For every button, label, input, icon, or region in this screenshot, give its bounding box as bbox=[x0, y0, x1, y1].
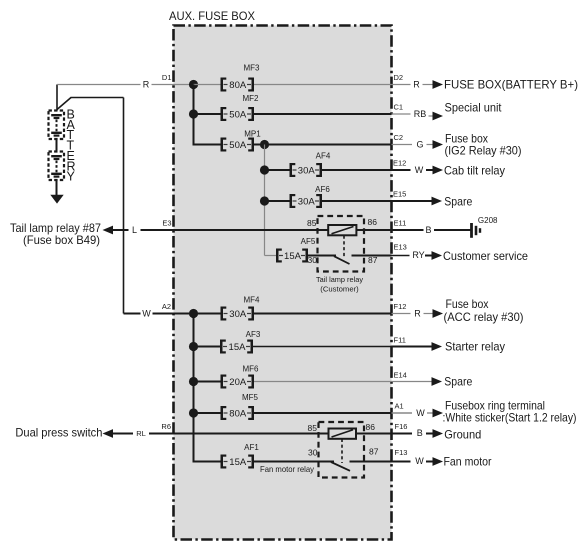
svg-text:D2: D2 bbox=[394, 73, 404, 82]
svg-text:Tail lamp relay: Tail lamp relay bbox=[316, 275, 363, 284]
svg-text:Customer service: Customer service bbox=[443, 249, 528, 263]
wire node to fuse AF3 bbox=[194, 346, 221, 348]
relay U1 tail lamp relay case bbox=[318, 216, 365, 272]
svg-text:Fan motor relay: Fan motor relay bbox=[260, 464, 315, 474]
wire W to arrow A1 bbox=[427, 412, 435, 414]
svg-text:R6: R6 bbox=[161, 422, 171, 431]
svg-text:30A: 30A bbox=[229, 309, 247, 320]
battery BT1 cell 2 case bbox=[49, 152, 65, 181]
fuse MF6 20A bbox=[221, 364, 260, 388]
svg-text:R: R bbox=[414, 309, 421, 319]
wire W battery tap to label bbox=[124, 313, 141, 315]
fuse MF3 80A bbox=[221, 64, 261, 92]
svg-text:RY: RY bbox=[412, 250, 424, 260]
svg-text:86: 86 bbox=[366, 422, 376, 432]
svg-text:A2: A2 bbox=[162, 302, 171, 311]
wire RL label to box bbox=[149, 433, 174, 435]
svg-text:15A: 15A bbox=[229, 457, 247, 468]
wire G to arrow bbox=[427, 144, 435, 146]
svg-text::White sticker(Start 1.2 relay: :White sticker(Start 1.2 relay) bbox=[443, 410, 577, 424]
wire battery tap vertical down to A2 row bbox=[123, 98, 125, 314]
node junction AF3 bbox=[189, 342, 198, 351]
arrow to FUSE BOX(BATTERY B+) bbox=[433, 80, 444, 89]
relay U1 pin 87 wire bbox=[352, 255, 392, 257]
arrow to Starter relay bbox=[425, 342, 442, 351]
arrow to Tail lamp relay #87 bbox=[103, 226, 120, 235]
arrow to Fusebox ring terminal bbox=[433, 409, 444, 418]
svg-text:E11: E11 bbox=[394, 219, 407, 228]
wire node to fuse AF4 bbox=[265, 169, 290, 171]
wire R battery to label bbox=[57, 84, 141, 86]
wire battery negative bbox=[56, 180, 58, 195]
wire bus A elbow to AF1 fuse bbox=[193, 461, 221, 463]
fuse MF5 80A bbox=[221, 393, 259, 420]
wire W label to node bbox=[153, 313, 190, 315]
svg-text:15A: 15A bbox=[284, 251, 302, 262]
ground G208 symbol bbox=[472, 223, 481, 238]
wire C2 out bbox=[392, 144, 413, 146]
arrow to Dual press switch bbox=[103, 429, 120, 438]
wire E12 out bbox=[392, 169, 411, 171]
svg-text:A1: A1 bbox=[395, 402, 404, 411]
svg-text:20A: 20A bbox=[229, 377, 247, 388]
svg-text:R: R bbox=[413, 80, 420, 90]
arrow to Spare bottom bbox=[432, 377, 443, 386]
wire bus B elbow to AF5 fuse bbox=[265, 255, 277, 257]
wire E11 out bbox=[392, 229, 424, 231]
svg-text:(Customer): (Customer) bbox=[320, 284, 359, 293]
svg-text:Y: Y bbox=[67, 170, 76, 184]
svg-text:30: 30 bbox=[308, 448, 318, 458]
wire battery tap horizontal bbox=[71, 97, 124, 99]
fuse AF3 15A bbox=[220, 330, 261, 354]
svg-text:RB: RB bbox=[414, 109, 427, 119]
relay U1 coil to pin 86 wire bbox=[356, 229, 391, 231]
svg-text:AF5: AF5 bbox=[301, 237, 316, 246]
svg-text:R: R bbox=[143, 80, 150, 90]
wire bus A top bbox=[193, 85, 195, 145]
svg-text:(IG2 Relay #30): (IG2 Relay #30) bbox=[445, 143, 522, 157]
svg-text:MP1: MP1 bbox=[244, 130, 261, 139]
node junction MF6 bbox=[189, 377, 198, 386]
fuse AF5 15A bbox=[276, 237, 316, 263]
relay U1 contact blade bbox=[334, 256, 350, 264]
node junction MF5 bbox=[189, 408, 198, 417]
svg-text:86: 86 bbox=[368, 217, 378, 227]
svg-text:RL: RL bbox=[136, 429, 146, 438]
arrow to Ground bbox=[426, 429, 443, 438]
relay U2 pin 30 wire bbox=[254, 461, 334, 463]
svg-text:E13: E13 bbox=[394, 243, 407, 252]
fuse MF2 50A bbox=[221, 94, 260, 121]
aux fuse box enclosure bbox=[174, 26, 392, 540]
wire fuse MF2 to C1 bbox=[254, 113, 392, 115]
relay U2 contact blade bbox=[331, 462, 350, 471]
node junction MF3 bbox=[189, 80, 198, 89]
wire L label to box bbox=[141, 229, 174, 231]
svg-text:F12: F12 bbox=[394, 302, 407, 311]
svg-text:50A: 50A bbox=[229, 140, 247, 151]
svg-text:W: W bbox=[415, 456, 424, 466]
wire battery positive to R row bbox=[56, 85, 58, 111]
svg-text:G: G bbox=[416, 140, 423, 150]
wire L arrow to label bbox=[120, 229, 129, 231]
svg-text:50A: 50A bbox=[229, 109, 247, 120]
node junction MF4 bbox=[189, 309, 198, 318]
wire bus A elbow to MP1 fuse bbox=[193, 144, 221, 146]
svg-text:(ACC relay #30): (ACC relay #30) bbox=[444, 310, 524, 324]
svg-text:F13: F13 bbox=[395, 448, 408, 457]
wire between battery cells bbox=[56, 139, 58, 152]
svg-text:Starter relay: Starter relay bbox=[445, 340, 505, 354]
svg-text:30: 30 bbox=[308, 255, 318, 265]
wire E13 out bbox=[392, 255, 410, 257]
arrow to Fuse box ACC bbox=[433, 309, 444, 318]
wire node to fuse MF4 bbox=[194, 313, 221, 315]
wire fuse AF4 to E12 bbox=[322, 169, 392, 171]
svg-text:MF5: MF5 bbox=[242, 393, 259, 402]
wire fuse MF5 to A1 bbox=[254, 412, 392, 414]
wire fuse MP1 to node bbox=[254, 144, 265, 146]
wire F16 out bbox=[392, 433, 413, 435]
wire node to fuse MF2 bbox=[194, 113, 221, 115]
svg-text:Special unit: Special unit bbox=[445, 101, 503, 115]
svg-text:85: 85 bbox=[308, 423, 318, 433]
arrow to Cab tilt relay bbox=[426, 166, 443, 175]
svg-text:G208: G208 bbox=[478, 216, 498, 225]
svg-text:Dual press switch: Dual press switch bbox=[15, 425, 102, 439]
fuse AF1 15A bbox=[221, 443, 260, 469]
wire node to fuse AF6 bbox=[265, 200, 290, 202]
svg-text:87: 87 bbox=[369, 447, 379, 457]
svg-text:AF6: AF6 bbox=[315, 185, 330, 194]
relay U1 pin 30 wire bbox=[308, 255, 336, 257]
arrow to Fan motor bbox=[426, 457, 443, 466]
svg-text:W: W bbox=[416, 408, 425, 418]
wire node MP1 to C2 bbox=[265, 144, 392, 146]
arrow to Customer service bbox=[425, 251, 442, 260]
svg-text:Spare: Spare bbox=[444, 194, 472, 208]
battery BT1 cell 1 case bbox=[49, 111, 65, 140]
wire F11 out bbox=[392, 346, 434, 348]
svg-text:E3: E3 bbox=[162, 219, 171, 228]
svg-text:Ground: Ground bbox=[444, 427, 481, 441]
svg-text:F11: F11 bbox=[394, 336, 406, 345]
wire fuse MF6 to E14 bbox=[254, 381, 392, 383]
wire RL arrow to label bbox=[120, 433, 134, 435]
relay U1 coil-contact dashed link bbox=[343, 236, 345, 258]
svg-text:F16: F16 bbox=[395, 422, 408, 431]
battery BT1 cell 1 plates bbox=[51, 115, 62, 135]
wire B to ground bbox=[434, 229, 471, 231]
svg-text:L: L bbox=[132, 225, 137, 235]
wire fuse MF3 to D2 bbox=[254, 84, 411, 86]
svg-text:E12: E12 bbox=[393, 159, 406, 168]
svg-text:AF3: AF3 bbox=[246, 330, 261, 339]
svg-text:80A: 80A bbox=[229, 408, 247, 419]
wire node to fuse MF5 bbox=[194, 412, 221, 414]
wire fuse AF6 to E15 bbox=[322, 200, 392, 202]
wire E15 out bbox=[392, 200, 434, 202]
wire C1 out bbox=[392, 113, 411, 115]
node junction AF6 bbox=[260, 196, 269, 205]
node junction AF4 bbox=[260, 165, 269, 174]
wire node to fuse MF6 bbox=[194, 381, 221, 383]
wire R to arrow bbox=[423, 84, 435, 86]
wire R label to node bbox=[152, 84, 190, 86]
wire F12 out bbox=[392, 313, 411, 315]
svg-text:B: B bbox=[425, 225, 431, 235]
svg-text:FUSE BOX(BATTERY B+): FUSE BOX(BATTERY B+) bbox=[444, 78, 578, 92]
wire E14 out bbox=[392, 381, 434, 383]
wire A1 out bbox=[392, 412, 413, 414]
arrow to Fuse box IG2 bbox=[433, 140, 444, 149]
svg-text:MF6: MF6 bbox=[243, 364, 260, 373]
node junction MF2 bbox=[189, 109, 198, 118]
svg-text:30A: 30A bbox=[298, 196, 316, 207]
svg-text:C1: C1 bbox=[394, 103, 404, 112]
node junction MP1 bbox=[260, 140, 269, 149]
relay U2 fan motor relay case bbox=[319, 422, 365, 478]
wire fuse MF4 to F12 bbox=[254, 313, 392, 315]
svg-text:AF1: AF1 bbox=[244, 443, 259, 452]
svg-text:Fuse box: Fuse box bbox=[446, 297, 489, 311]
relay U2 coil-contact dashed link bbox=[341, 439, 343, 463]
svg-text:B: B bbox=[417, 428, 423, 438]
svg-text:C2: C2 bbox=[394, 133, 404, 142]
svg-text:Cab tilt relay: Cab tilt relay bbox=[444, 163, 505, 177]
relay U1 coil bbox=[328, 225, 356, 235]
svg-text:MF2: MF2 bbox=[243, 94, 260, 103]
wire R6 to relay pin 85 bbox=[174, 433, 329, 435]
ground symbol below battery bbox=[50, 195, 63, 204]
svg-text:E14: E14 bbox=[394, 371, 407, 380]
wire R to arrow F12 bbox=[424, 313, 435, 315]
wire RB to arrow bbox=[429, 115, 435, 117]
wire E3 to relay pin 85 bbox=[174, 229, 329, 231]
svg-text:Fan motor: Fan motor bbox=[444, 454, 492, 468]
fuse MF4 30A bbox=[221, 296, 261, 321]
fuse MP1 50A bbox=[221, 130, 262, 152]
wire fuse AF3 to F11 bbox=[253, 346, 392, 348]
svg-text:MF4: MF4 bbox=[244, 296, 261, 305]
svg-text:80A: 80A bbox=[229, 80, 247, 91]
arrow to Special unit bbox=[433, 112, 444, 121]
svg-text:Spare: Spare bbox=[444, 375, 472, 389]
relay U2 pin 87 wire bbox=[350, 461, 392, 463]
svg-text:(Fuse box B49): (Fuse box B49) bbox=[23, 233, 100, 247]
wire F13 out bbox=[392, 461, 411, 463]
svg-text:W: W bbox=[415, 165, 424, 175]
svg-text:E15: E15 bbox=[393, 190, 406, 199]
relay U2 coil to pin 86 wire bbox=[356, 433, 392, 435]
wire battery tap diagonal bbox=[57, 98, 71, 110]
fuse AF6 30A bbox=[290, 185, 331, 208]
relay U2 coil bbox=[329, 429, 357, 439]
svg-text:30A: 30A bbox=[298, 165, 316, 176]
wire bus A bottom bbox=[193, 314, 195, 462]
svg-text:AF4: AF4 bbox=[316, 152, 331, 161]
svg-text:15A: 15A bbox=[229, 342, 247, 353]
battery BT1 cell 2 plates bbox=[51, 156, 62, 176]
svg-text:85: 85 bbox=[307, 218, 317, 228]
svg-text:W: W bbox=[142, 309, 151, 319]
label BATTERY bbox=[67, 108, 76, 184]
svg-text:MF3: MF3 bbox=[244, 64, 261, 73]
svg-text:D1: D1 bbox=[162, 73, 172, 82]
arrow to Spare top bbox=[425, 197, 442, 206]
fuse AF4 30A bbox=[290, 152, 331, 178]
wire node to fuse MF3 bbox=[194, 84, 221, 86]
wire bus B vertical bbox=[264, 145, 266, 256]
svg-text:AUX. FUSE BOX: AUX. FUSE BOX bbox=[169, 9, 255, 23]
